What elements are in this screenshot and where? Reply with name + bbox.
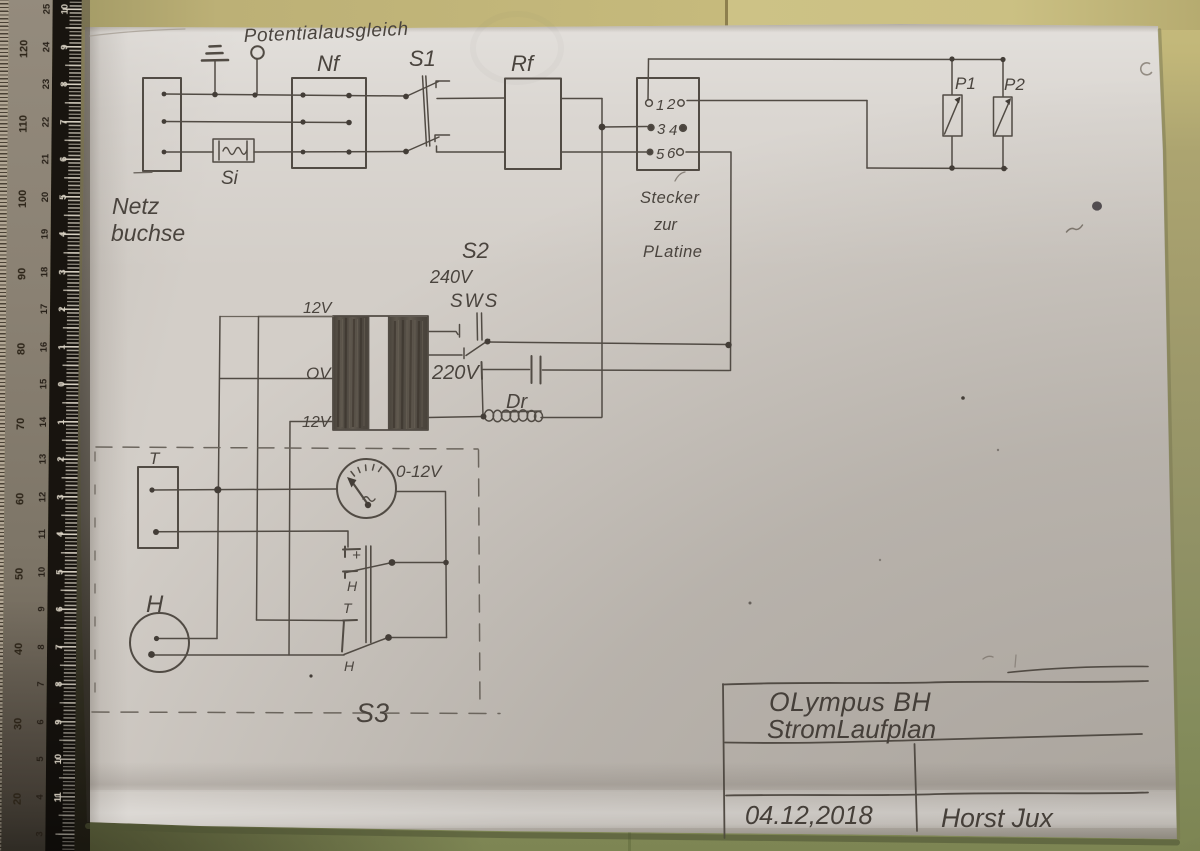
- svg-text:4: 4: [669, 122, 677, 139]
- svg-text:+: +: [352, 547, 361, 564]
- svg-text:240V: 240V: [429, 267, 474, 287]
- svg-text:6: 6: [667, 145, 676, 162]
- svg-text:Si: Si: [221, 168, 239, 189]
- svg-text:H: H: [344, 658, 355, 674]
- svg-text:04.12,2018: 04.12,2018: [745, 802, 873, 830]
- svg-text:Horst Jux: Horst Jux: [941, 803, 1055, 833]
- svg-text:Stecker: Stecker: [640, 189, 700, 207]
- svg-text:T: T: [343, 600, 353, 616]
- svg-text:PLatine: PLatine: [643, 243, 702, 261]
- svg-text:Nf: Nf: [317, 51, 342, 76]
- svg-text:12V: 12V: [302, 414, 332, 431]
- svg-text:SWS: SWS: [450, 291, 499, 312]
- svg-text:H: H: [146, 591, 164, 618]
- svg-text:Rf: Rf: [511, 51, 536, 76]
- svg-text:0-12V: 0-12V: [396, 462, 443, 481]
- svg-text:S1: S1: [409, 46, 436, 71]
- svg-text:OV: OV: [306, 364, 332, 383]
- svg-text:Potentialausgleich: Potentialausgleich: [243, 19, 409, 47]
- svg-text:T: T: [149, 449, 161, 468]
- svg-text:zur: zur: [653, 216, 678, 234]
- svg-text:5: 5: [656, 146, 665, 163]
- svg-text:12V: 12V: [303, 300, 333, 317]
- svg-text:Netz: Netz: [112, 193, 160, 219]
- svg-text:P1: P1: [955, 74, 976, 93]
- svg-text:220V: 220V: [431, 362, 480, 384]
- svg-text:Dr: Dr: [506, 391, 528, 413]
- svg-text:S3: S3: [356, 698, 389, 728]
- svg-text:1: 1: [656, 97, 664, 114]
- svg-text:H: H: [347, 578, 358, 594]
- svg-text:buchse: buchse: [111, 220, 185, 246]
- svg-text:2: 2: [666, 96, 676, 113]
- svg-text:StromLaufplan: StromLaufplan: [767, 714, 936, 744]
- svg-text:OLympus BH: OLympus BH: [769, 687, 931, 717]
- svg-text:S2: S2: [462, 238, 489, 263]
- svg-text:P2: P2: [1004, 75, 1025, 94]
- svg-text:3: 3: [657, 121, 666, 138]
